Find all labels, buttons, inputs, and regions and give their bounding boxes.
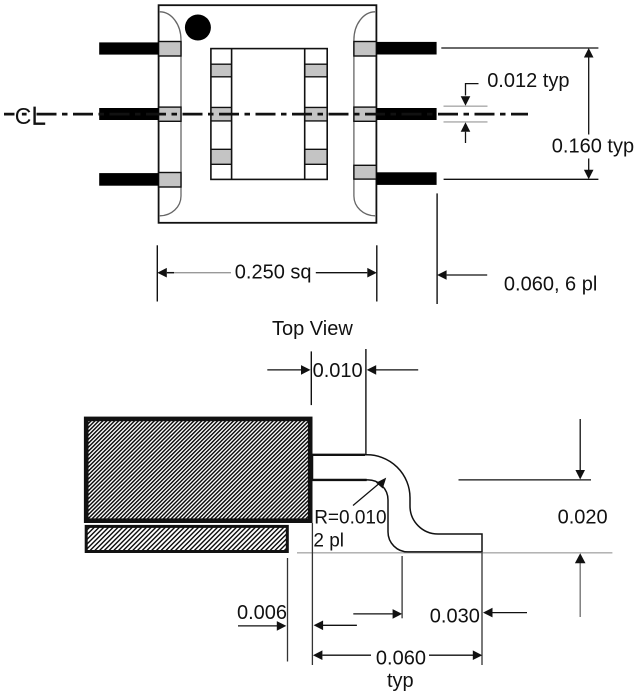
svg-text:R=0.010: R=0.010: [314, 508, 386, 529]
svg-text:0.020: 0.020: [558, 507, 608, 529]
svg-text:0.060: 0.060: [376, 648, 426, 670]
svg-text:C: C: [15, 103, 32, 129]
svg-text:0.060, 6 pl: 0.060, 6 pl: [504, 273, 597, 295]
svg-text:0.010: 0.010: [313, 360, 363, 382]
svg-text:0.250 sq: 0.250 sq: [235, 262, 312, 284]
svg-text:0.160 typ: 0.160 typ: [552, 136, 634, 158]
svg-text:0.006: 0.006: [237, 602, 287, 624]
svg-text:typ: typ: [387, 670, 414, 692]
svg-text:0.030: 0.030: [430, 605, 480, 627]
svg-text:Top View: Top View: [272, 318, 353, 340]
svg-text:2 pl: 2 pl: [313, 530, 344, 551]
svg-text:0.012 typ: 0.012 typ: [487, 70, 569, 92]
